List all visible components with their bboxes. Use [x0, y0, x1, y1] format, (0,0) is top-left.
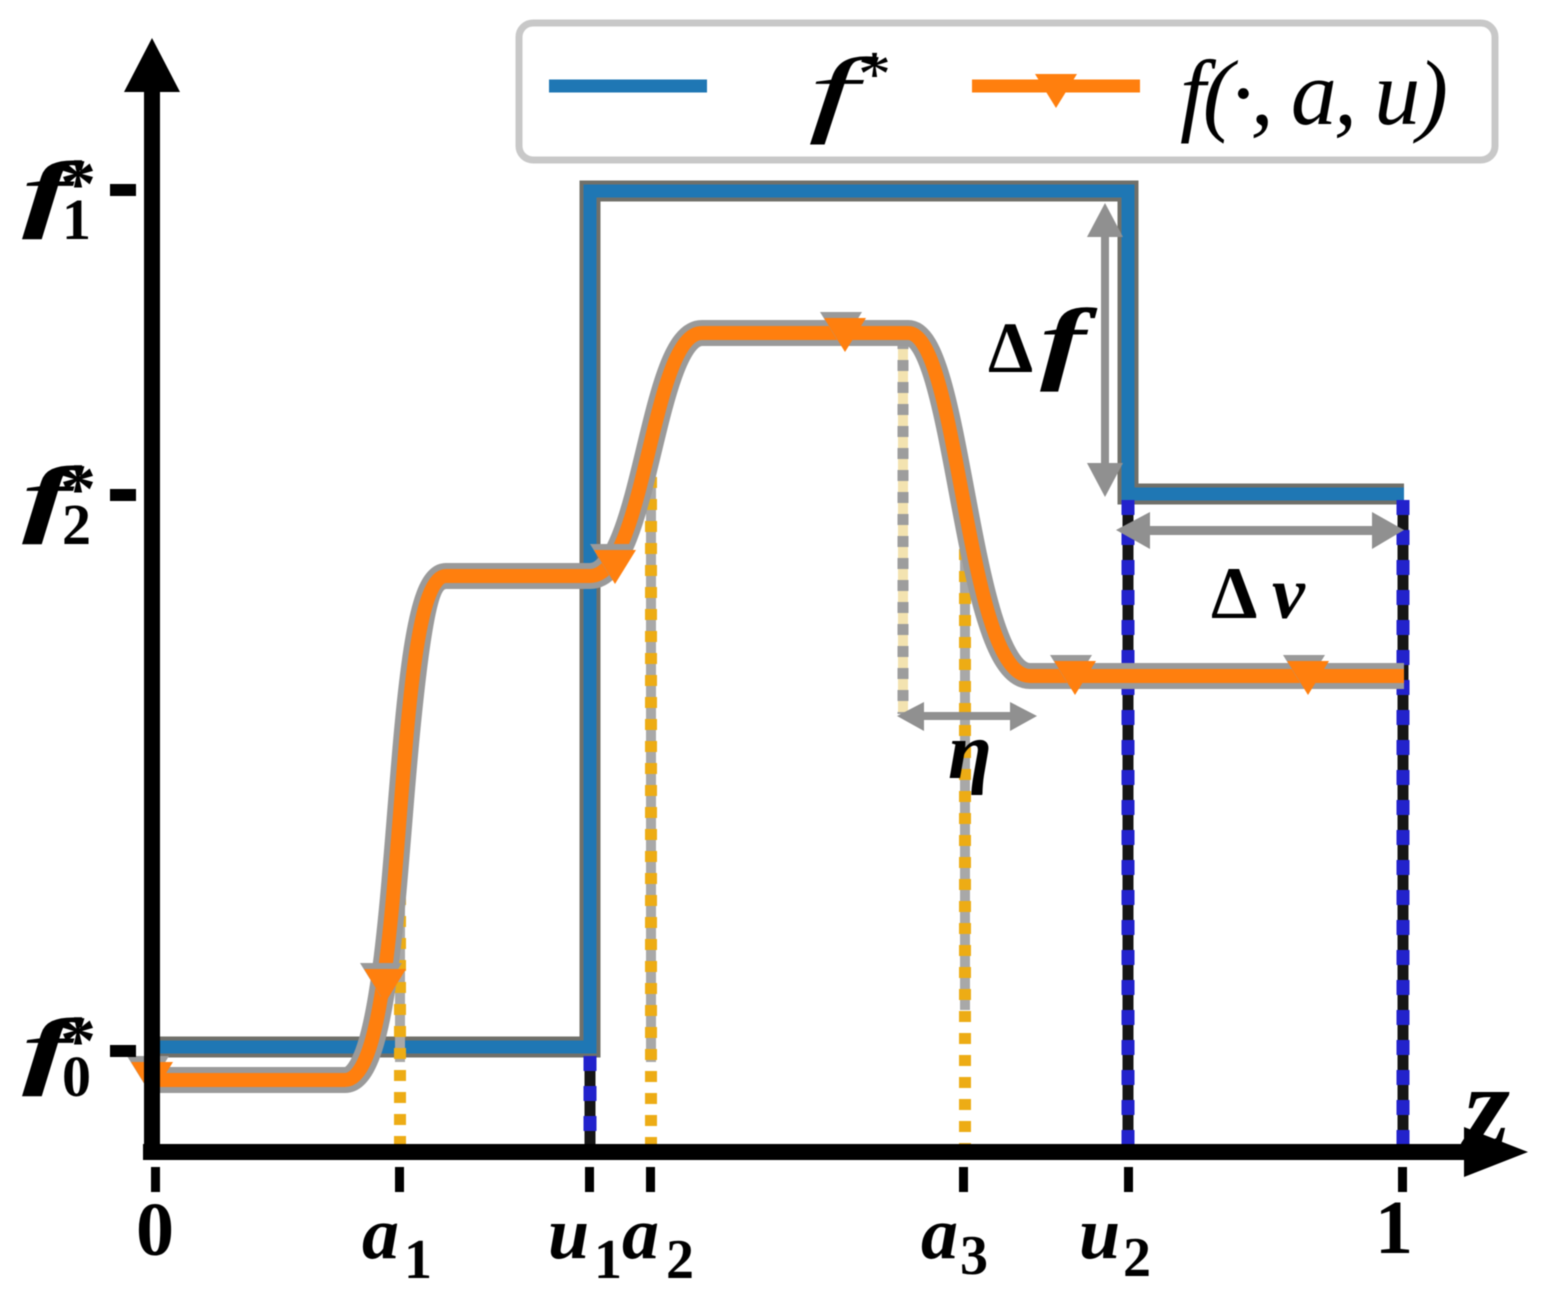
- orange smooth curve halo: [150, 333, 1404, 1080]
- orange markers (down triangles), gray shadow behind: [127, 312, 1325, 1090]
- axis ticks y: [110, 184, 136, 1057]
- svg-text:*: *: [60, 449, 96, 529]
- orange smooth curve f(.,a,u): [150, 333, 1404, 1080]
- svg-text:2: 2: [1123, 1227, 1151, 1289]
- dropline u1: [585, 1056, 596, 1148]
- svg-text:*: *: [60, 1001, 96, 1081]
- svg-text:1: 1: [404, 1229, 432, 1291]
- svg-text:a: a: [362, 1193, 399, 1275]
- svg-text:u: u: [548, 1193, 589, 1275]
- blue step curve f*: [150, 191, 1404, 1047]
- svg-text:1: 1: [1375, 1186, 1413, 1270]
- legend blue sample: [549, 80, 707, 93]
- svg-text:z: z: [1460, 1041, 1510, 1172]
- black axes: [144, 88, 160, 1159]
- gray annotation: Delta v arrow: [1116, 512, 1404, 549]
- svg-text:*: *: [858, 38, 891, 111]
- svg-text:a: a: [921, 1193, 958, 1275]
- x axis labels: [136, 1041, 1510, 1291]
- svg-text:0: 0: [136, 1188, 174, 1272]
- annotation labels: [948, 290, 1306, 796]
- dropline a3: [960, 505, 970, 1148]
- svg-text:Δ: Δ: [988, 308, 1033, 388]
- svg-text:a: a: [622, 1193, 659, 1275]
- dropline at 1: [1398, 500, 1409, 1148]
- svg-text:3: 3: [960, 1225, 988, 1287]
- axis ticks x: [151, 1167, 1407, 1192]
- dropline u2: [1123, 500, 1134, 1148]
- svg-text:2: 2: [666, 1229, 694, 1291]
- svg-text:1: 1: [594, 1229, 622, 1291]
- y axis labels: [22, 144, 96, 1109]
- legend box: [519, 23, 1495, 160]
- svg-text:η: η: [948, 708, 992, 796]
- legend orange sample: [972, 80, 1140, 93]
- dropline a1: [395, 828, 405, 1148]
- svg-text:*: *: [60, 144, 96, 224]
- dropline a2: [646, 455, 656, 1148]
- svg-text:u: u: [1079, 1193, 1120, 1275]
- blue step curve halo: [150, 191, 1404, 1047]
- svg-text:Δ: Δ: [1211, 553, 1257, 635]
- gray dropline at transition start: [898, 338, 908, 714]
- gray annotation: Delta f arrow: [1087, 203, 1123, 497]
- svg-text:v: v: [1272, 553, 1306, 635]
- gray annotation: eta arrow: [897, 702, 1037, 731]
- svg-text:f(·, a, u): f(·, a, u): [1180, 42, 1448, 144]
